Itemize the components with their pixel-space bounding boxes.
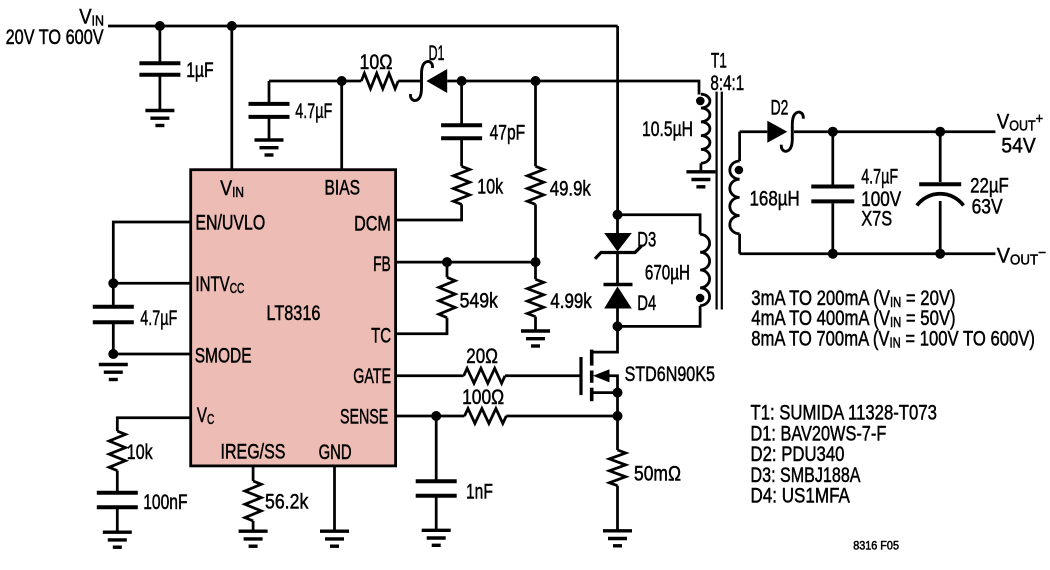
resistor 4.99k [527, 279, 543, 316]
svg-text:100nF: 100nF [143, 490, 187, 514]
ground under BIAS cap [255, 140, 284, 155]
wire BIAS node left [269, 80, 342, 83]
resistor 549k [439, 277, 455, 317]
wire GND pin [333, 466, 336, 530]
junction source/sense [613, 411, 623, 421]
wire D4 to bottom node [616, 309, 619, 327]
capacitor 1µF [139, 63, 180, 75]
svg-text:X7S: X7S [861, 206, 892, 230]
transformer T1 core [717, 92, 722, 310]
wire to R 50mΩ [616, 416, 619, 450]
svg-text:STD6N90K5: STD6N90K5 [625, 362, 715, 386]
svg-text:D1: D1 [429, 41, 445, 65]
svg-text:4.7µF: 4.7µF [140, 306, 177, 330]
wire 4.99k to gnd [534, 317, 537, 330]
wire to R 10ohm [342, 80, 362, 83]
resistor 49.9k [527, 166, 543, 204]
wire C47p to R10k [460, 138, 463, 166]
ground under 4.99k [521, 331, 550, 346]
wire 56.2k to gnd [252, 521, 255, 530]
capacitor 4.7µF (BIAS) [249, 104, 290, 117]
svg-text:49.9k: 49.9k [550, 177, 591, 201]
ground under 56.2k [239, 531, 268, 546]
svg-text:4.7µF: 4.7µF [295, 99, 332, 123]
resistor 56.2k [245, 481, 261, 521]
junction FB/4.99k [531, 257, 541, 267]
wire BIAS pin [340, 81, 343, 170]
junction VOUT+/22uF [935, 127, 945, 137]
svg-text:56.2k: 56.2k [265, 490, 308, 514]
svg-text:IREG/SS: IREG/SS [221, 440, 286, 464]
svg-text:10k: 10k [477, 175, 503, 199]
svg-text:BIAS: BIAS [325, 176, 361, 200]
wire C intvcc to SMODE node [112, 323, 115, 355]
svg-text:SENSE: SENSE [340, 405, 388, 429]
wire to C 1nF [435, 416, 438, 480]
wire secondary bottom [738, 234, 741, 254]
wire 20Ω to gate [505, 374, 580, 377]
ground under 100nF [103, 532, 132, 547]
ground under 1µF [145, 111, 174, 126]
capacitor 1nF [416, 481, 457, 496]
wire VIN top rail [108, 25, 618, 28]
resistor 100Ω [465, 409, 507, 424]
svg-text:8316 F05: 8316 F05 [853, 541, 899, 553]
transistor Q1 STD6N90K5 [581, 326, 618, 401]
junction VIN pin [227, 21, 237, 31]
svg-text:8:4:1: 8:4:1 [710, 71, 744, 95]
svg-text:63V: 63V [972, 194, 1004, 218]
wire R10 to D1 [398, 80, 421, 83]
transformer T1 winding 10.5uH bias [701, 94, 710, 163]
wire from 670uH bottom [618, 306, 701, 327]
svg-text:GATE: GATE [353, 364, 391, 388]
wire to C 4.7uF bias [268, 81, 271, 102]
resistor 50mΩ [609, 450, 625, 486]
wire to R 49.9k [534, 81, 537, 166]
svg-text:D4: D4 [637, 291, 656, 315]
junction SENSE/1nF [431, 411, 441, 421]
svg-text:D4: US1MFA: D4: US1MFA [751, 484, 851, 508]
wire to C 1uF [159, 26, 162, 62]
svg-text:SMODE: SMODE [195, 344, 252, 368]
resistor 10k (VC) [109, 431, 125, 471]
wire secondary top [738, 132, 741, 161]
capacitor 100nF [97, 493, 138, 508]
wire FB [396, 261, 536, 264]
capacitor 22µF polarized [917, 184, 964, 205]
wire R10k to C100nF [116, 471, 119, 491]
wire 100Ω to source node [506, 415, 617, 418]
T1 primary polarity dot [696, 294, 705, 303]
svg-text:T1: T1 [711, 49, 727, 73]
diode D4 [604, 285, 633, 309]
wire D3 to D4 [616, 253, 619, 285]
svg-text:10k: 10k [127, 440, 153, 464]
svg-text:47pF: 47pF [490, 121, 526, 145]
wire D1 anode to T1 primary [447, 81, 699, 95]
svg-text:168µH: 168µH [750, 187, 800, 211]
svg-text:20Ω: 20Ω [466, 344, 498, 368]
junction primary top / D3 [613, 210, 623, 220]
ground under 50mΩ [603, 531, 632, 546]
ground under bias winding [686, 172, 715, 187]
wire IREG/SS pin [252, 466, 255, 481]
wire C22uF to rail [939, 201, 942, 254]
svg-text:GND: GND [319, 440, 352, 464]
capacitor 4.7µF output [811, 187, 854, 202]
svg-text:D3: D3 [637, 228, 656, 252]
junction VOUT-/4.7uF [828, 249, 838, 259]
wire 549k to TC pin [396, 318, 447, 334]
svg-text:54V: 54V [1001, 133, 1036, 157]
wire C100nF to gnd [116, 508, 119, 532]
svg-text:1µF: 1µF [186, 58, 213, 82]
transformer T1 winding 168uH secondary [730, 161, 740, 234]
junction source/body [613, 388, 623, 398]
wire to C 4.7uF intvcc [112, 283, 115, 305]
capacitor 47pF [441, 125, 482, 138]
svg-text:100Ω: 100Ω [462, 385, 504, 409]
wire FB to 549k [446, 262, 449, 277]
wire R49.9k to FB node [534, 204, 537, 262]
junction VOUT-/22uF [935, 249, 945, 259]
junction 49.9k tap [531, 76, 541, 86]
ground under 1nF [422, 530, 451, 545]
svg-text:DCM: DCM [354, 212, 391, 236]
wire INTVCC [113, 282, 190, 285]
wire R10k to DCM pin [396, 204, 462, 220]
ground under SMODE [99, 365, 128, 380]
wire bias winding to gnd [700, 163, 703, 170]
junction SMODE node [108, 349, 118, 359]
svg-text:D2: D2 [771, 96, 789, 120]
transformer T1 winding 670uH primary [700, 234, 710, 305]
diode D1 [410, 61, 447, 100]
junction VOUT+/4.7uF [828, 127, 838, 137]
wire VIN rail to primary [616, 26, 619, 215]
junction INTVCC node [108, 278, 118, 288]
diode D2 [767, 112, 803, 151]
wire C1nF to gnd [435, 496, 438, 529]
wire to C 22uF [939, 132, 942, 182]
wire to C 4.7uF out [831, 132, 834, 185]
wire EN/UVLO [113, 222, 190, 283]
svg-text:FB: FB [373, 252, 391, 276]
wire GATE [396, 374, 464, 377]
wire VOUT- rail [740, 252, 996, 255]
junction 47pF tap [457, 76, 467, 86]
resistor 10Ω [361, 73, 398, 89]
T1 bias winding polarity dot [696, 97, 705, 106]
wire C4.7 out to rail [831, 203, 834, 253]
wire VOUT+ rail [794, 130, 995, 133]
junction BIAS node [337, 76, 347, 86]
wire SENSE [396, 415, 465, 418]
svg-text:10Ω: 10Ω [360, 50, 393, 74]
svg-text:4.99k: 4.99k [550, 289, 592, 313]
wire VC [117, 418, 190, 431]
wire 50mΩ to gnd [616, 486, 619, 530]
ground under GND pin [320, 531, 349, 546]
wire secondary to D2 [740, 130, 768, 133]
junction primary bottom / D4 [613, 321, 623, 331]
resistor 20Ω [464, 368, 505, 383]
svg-text:LT8316: LT8316 [267, 301, 321, 325]
T1 secondary polarity dot [735, 166, 744, 175]
svg-text:670µH: 670µH [645, 261, 690, 285]
svg-text:4.7µF: 4.7µF [861, 165, 898, 189]
svg-text:EN/UVLO: EN/UVLO [195, 211, 265, 235]
svg-text:TC: TC [371, 324, 391, 348]
op-amp U1 LT8316 IC body [191, 170, 396, 466]
wire to 670uH top [618, 215, 701, 235]
resistor 10k (DCM) [453, 166, 469, 204]
svg-text:1nF: 1nF [466, 480, 493, 504]
svg-text:10.5µH: 10.5µH [642, 117, 693, 141]
svg-text:20V TO 600V: 20V TO 600V [6, 25, 104, 49]
capacitor 4.7µF (INTVCC) [93, 307, 134, 323]
svg-text:549k: 549k [460, 289, 499, 313]
wire D3 top lead [616, 215, 619, 233]
junction FB/549k [442, 257, 452, 267]
junction VIN/C-1uF [155, 21, 165, 31]
wire FB to 4.99k [534, 262, 537, 279]
wire C 1uF to gnd [159, 77, 162, 110]
wire C bias to gnd [268, 117, 271, 139]
wire to C 47pF [460, 81, 463, 124]
wire SMODE [113, 353, 190, 356]
wire VIN pin [230, 26, 233, 170]
wire source down [616, 393, 619, 416]
svg-text:50mΩ: 50mΩ [634, 462, 681, 486]
diode D3 zener [595, 233, 642, 259]
